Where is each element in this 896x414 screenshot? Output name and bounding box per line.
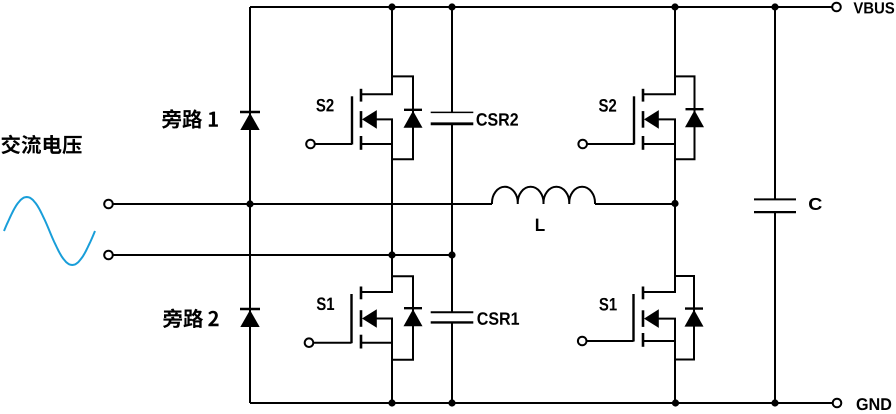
node left leg midpoint (AC line 2) xyxy=(388,251,395,258)
label GND xyxy=(857,398,868,410)
label 旁路 2 xyxy=(163,308,219,328)
terminal AC line 1 xyxy=(104,200,113,209)
transistor S2 (right) xyxy=(578,89,676,150)
node CSR bottom xyxy=(448,399,455,406)
node left leg top xyxy=(388,3,395,10)
wire CSR2 lower xyxy=(451,124,453,255)
label C xyxy=(809,198,822,210)
wire bottom bus (GND rail) xyxy=(250,402,833,404)
wire AC line 2 xyxy=(113,254,452,256)
capacitor CSR1 xyxy=(431,312,474,322)
node right leg top xyxy=(671,3,678,10)
body diode of right S2 xyxy=(675,76,704,159)
transistor S1 (left) xyxy=(305,287,393,349)
wire AC line 1 (to inductor) xyxy=(113,203,492,205)
wire bypass branch vertical xyxy=(249,7,251,403)
wire top bus (VBUS rail) xyxy=(250,6,832,8)
wire left leg S2 source to midpoint xyxy=(391,119,393,255)
terminal VBUS xyxy=(832,3,841,12)
label S1 xyxy=(317,297,326,310)
node output cap top xyxy=(771,3,778,10)
wire right leg S2 source to midpoint xyxy=(674,119,676,204)
capacitor CSR2 xyxy=(431,112,474,123)
body diode of left S1 xyxy=(392,276,423,360)
wire CSR1 lower xyxy=(451,322,453,403)
wire CSR1 upper xyxy=(451,255,453,312)
terminal AC line 2 xyxy=(104,251,113,260)
node left leg bottom xyxy=(388,399,395,406)
label S2 xyxy=(599,99,608,112)
node output cap bottom xyxy=(771,399,778,406)
diode bypass 1 xyxy=(240,112,260,130)
wire left leg S1 source to GND xyxy=(391,319,393,404)
body diode of left S2 xyxy=(392,76,423,159)
transistor S1 (right) xyxy=(578,287,676,347)
label S2 xyxy=(316,99,325,112)
wire CSR2 upper xyxy=(451,7,453,112)
node right leg bottom xyxy=(672,399,679,406)
transistor S2 (left) xyxy=(306,89,393,150)
capacitor C (output) xyxy=(754,199,796,212)
wire right leg S2 drain xyxy=(674,7,676,95)
inductor L xyxy=(492,187,595,204)
label CSR2 xyxy=(477,113,487,126)
label VBUS xyxy=(854,2,864,13)
terminal GND xyxy=(833,399,842,408)
wire right leg S1 source to GND xyxy=(674,319,676,403)
wire output cap lower xyxy=(774,212,776,403)
wire output cap upper xyxy=(774,7,776,200)
body diode of right S1 xyxy=(675,276,704,360)
node bypass / AC line 1 junction xyxy=(246,200,253,207)
wire right leg S1 drain xyxy=(674,204,676,293)
node CSR midpoint (AC line 2) xyxy=(448,251,455,258)
wire left leg S2 drain xyxy=(391,7,393,95)
node right leg midpoint (inductor) xyxy=(671,200,678,207)
label S1 xyxy=(599,298,608,311)
label 交流电压 (AC voltage) xyxy=(1,135,81,155)
wire inductor to right leg midpoint xyxy=(595,203,675,205)
label L xyxy=(536,219,545,231)
wire left leg S1 drain xyxy=(391,255,393,293)
node CSR2 top xyxy=(448,3,455,10)
label 旁路 1 xyxy=(162,109,218,129)
diode bypass 2 xyxy=(240,309,260,327)
AC source sine wave xyxy=(4,197,95,265)
label CSR1 xyxy=(477,312,487,325)
